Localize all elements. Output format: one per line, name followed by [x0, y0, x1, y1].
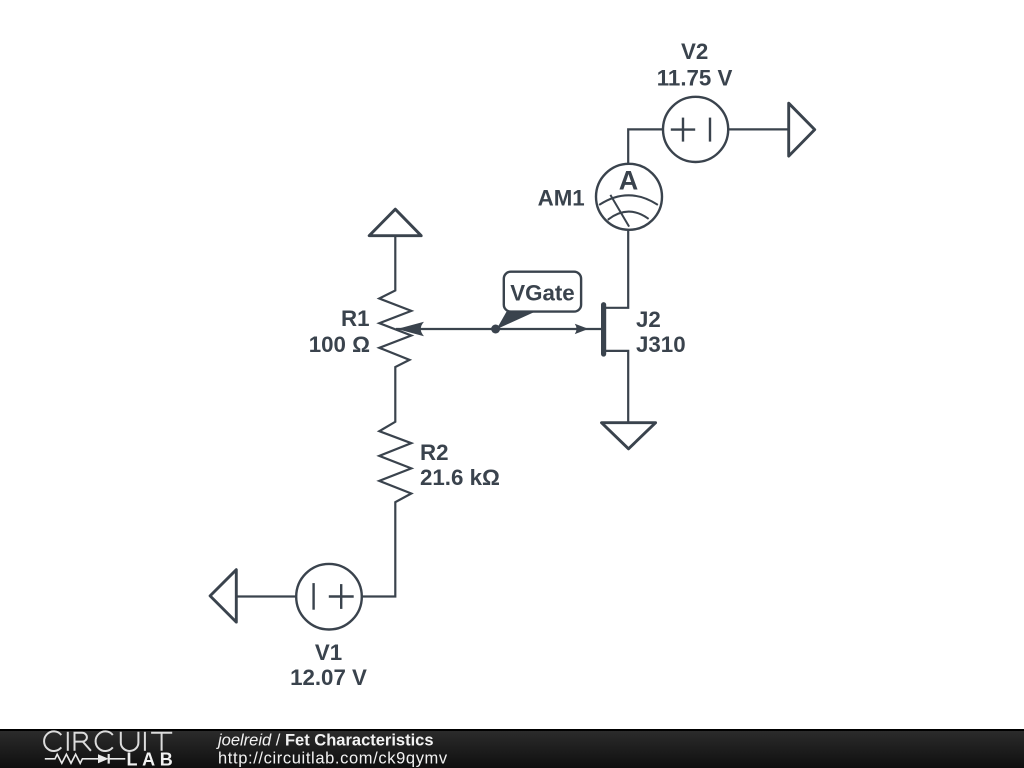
svg-text:http://circuitlab.com/ck9qymv: http://circuitlab.com/ck9qymv: [218, 750, 448, 768]
svg-text:joelreid / Fet Characteristics: joelreid / Fet Characteristics: [216, 732, 434, 750]
svg-text:LAB: LAB: [127, 749, 178, 768]
